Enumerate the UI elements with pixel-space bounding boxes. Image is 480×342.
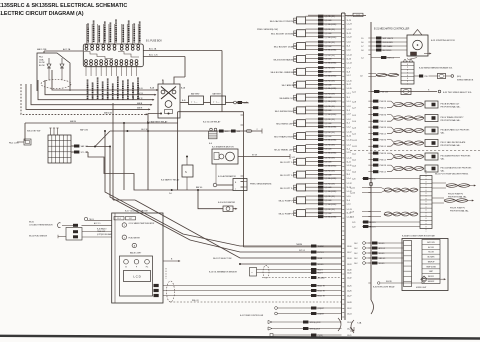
- svg-text:E-9 HOUR METER: E-9 HOUR METER: [218, 202, 236, 204]
- svg-text:BACK LIGHT: BACK LIGHT: [130, 251, 142, 254]
- svg-text:SE-5 SWING RIGHT: SE-5 SWING RIGHT: [275, 111, 295, 113]
- svg-text:SOL VALVE UNIT: SOL VALVE UNIT: [86, 83, 89, 99]
- svg-text:IQ5 BA (GND): IQ5 BA (GND): [325, 36, 337, 39]
- svg-text:E-2 BATTERY RELAY: E-2 BATTERY RELAY: [147, 121, 168, 124]
- svg-text:1-2-11: 1-2-11: [352, 146, 357, 148]
- svg-text:1-1-7: 1-1-7: [347, 67, 351, 69]
- svg-text:1-2-12: 1-2-12: [352, 140, 357, 142]
- svg-text:SRV B(+)47-R: SRV B(+)47-R: [310, 322, 322, 324]
- svg-text:1-1-9: 1-1-9: [347, 106, 351, 108]
- svg-text:IQ5 L4B: IQ5 L4B: [325, 59, 333, 61]
- svg-text:COOL WATER TEMP INDICATOR: COOL WATER TEMP INDICATOR: [129, 222, 156, 225]
- svg-text:1-1-5: 1-1-5: [347, 196, 351, 198]
- svg-text:1-2-1: 1-2-1: [352, 92, 356, 94]
- svg-text:ST 1.25: ST 1.25: [81, 152, 87, 154]
- svg-text:1-2-8: 1-2-8: [352, 102, 356, 104]
- svg-text:11-16: 11-16: [347, 58, 351, 60]
- svg-text:FB-1: FB-1: [39, 57, 43, 59]
- svg-text:1-1-15: 1-1-15: [347, 80, 352, 82]
- svg-text:TEMP UP: TEMP UP: [428, 261, 435, 263]
- svg-text:13-18: 13-18: [347, 258, 352, 260]
- svg-text:SRV B(-)47-R: SRV B(-)47-R: [310, 329, 321, 331]
- svg-text:IQ5 BA (GND): IQ5 BA (GND): [325, 74, 337, 77]
- svg-text:IQ5 L4B: IQ5 L4B: [325, 174, 333, 176]
- svg-text:VAL.: VAL.: [441, 169, 446, 172]
- svg-text:2: 2: [257, 129, 258, 131]
- svg-text:COOLANT THERM SENSOR: COOLANT THERM SENSOR: [29, 223, 53, 226]
- svg-text:PRES. SENSOR(LOW): PRES. SENSOR(LOW): [257, 29, 278, 31]
- svg-text:| · | —: | · | —: [192, 101, 199, 103]
- svg-text:1-1-6: 1-1-6: [347, 42, 351, 44]
- svg-text:13-17: 13-17: [347, 252, 352, 254]
- svg-text:14-32: 14-32: [347, 277, 352, 279]
- svg-text:BODL 7R: BODL 7R: [318, 286, 326, 288]
- svg-text:BACKUP LAMP: BACKUP LAMP: [107, 85, 110, 99]
- svg-text:IQ5 L4B: IQ5 L4B: [325, 213, 333, 215]
- svg-text:1-1-2: 1-1-2: [347, 127, 351, 129]
- svg-text:IQ5 BA (GND): IQ5 BA (GND): [325, 164, 337, 167]
- svg-text:SE-11 OPT 2-1: SE-11 OPT 2-1: [280, 188, 295, 190]
- svg-text:E-17 CLUSTER GAUGE: E-17 CLUSTER GAUGE: [125, 210, 148, 213]
- svg-text:1-1-1: 1-1-1: [347, 93, 351, 95]
- svg-text:CIGAR SOCKET: CIGAR SOCKET: [122, 84, 125, 99]
- svg-text:1-1-11: 1-1-11: [347, 165, 352, 167]
- svg-text:(B-5): (B-5): [457, 76, 461, 78]
- svg-text:IQ5 BA (GND): IQ5 BA (GND): [325, 177, 337, 180]
- svg-text:11-2: 11-2: [347, 123, 350, 125]
- svg-text:WIPER MOTOR: WIPER MOTOR: [110, 28, 112, 42]
- svg-text:MAI 30: MAI 30: [70, 120, 76, 123]
- svg-text:ACC(B)R: ACC(B)R: [318, 277, 326, 280]
- svg-text:RADIO BACKUP: RADIO BACKUP: [115, 27, 118, 42]
- svg-text:AIRCON COMP: AIRCON COMP: [128, 28, 131, 42]
- svg-text:1-1-14: 1-1-14: [347, 55, 352, 57]
- svg-text:FUT 0.5: FUT 0.5: [318, 252, 324, 254]
- svg-text:12-7: 12-7: [129, 218, 132, 220]
- svg-text:ADJ 0.5: ADJ 0.5: [370, 221, 376, 224]
- svg-text:1-1-10: 1-1-10: [347, 132, 352, 134]
- svg-text:SE-14 ACCEL POTENTIO: SE-14 ACCEL POTENTIO: [270, 20, 295, 23]
- svg-text:MAI 0.5B: MAI 0.5B: [104, 111, 113, 114]
- svg-text:IQ5 RD (5V): IQ5 RD (5V): [325, 55, 336, 57]
- svg-text:1-1-2: 1-1-2: [347, 119, 351, 121]
- svg-text:SE-10 TRAVEL LEFT: SE-10 TRAVEL LEFT: [274, 148, 295, 151]
- svg-text:E-40 RADIO: E-40 RADIO: [97, 227, 107, 230]
- svg-text:IQ5 BA (GND): IQ5 BA (GND): [325, 113, 337, 116]
- svg-text:IQ5 BA (GND): IQ5 BA (GND): [325, 216, 337, 219]
- svg-text:E-13 OIL SEPARATOR SENSOR: E-13 OIL SEPARATOR SENSOR: [209, 270, 238, 273]
- svg-text:SPARE FUSE B: SPARE FUSE B: [139, 28, 142, 42]
- svg-text:11-8: 11-8: [347, 71, 350, 73]
- svg-text:12-1: 12-1: [117, 218, 120, 220]
- svg-text:11-3: 11-3: [347, 46, 350, 48]
- svg-text:LAMP CONT ACC: LAMP CONT ACC: [91, 83, 94, 99]
- svg-text:MAI 1.25B: MAI 1.25B: [37, 48, 47, 51]
- svg-text:1-8: 1-8: [361, 50, 364, 52]
- svg-text:E-1 FUSE BOX: E-1 FUSE BOX: [146, 41, 162, 43]
- svg-text:14-26: 14-26: [347, 290, 352, 292]
- svg-text:PSS RD: PSS RD: [380, 101, 387, 103]
- svg-text:E-4 GLOW RELAY: E-4 GLOW RELAY: [203, 121, 221, 124]
- svg-text:IQ5 L4B: IQ5 L4B: [325, 46, 333, 48]
- svg-text:FUEL METER: FUEL METER: [129, 237, 141, 239]
- svg-text:1-1-13: 1-1-13: [347, 209, 352, 211]
- svg-text:AIR SUSP SEAT: AIR SUSP SEAT: [132, 84, 135, 99]
- svg-text:SE-8 ARM OUT: SE-8 ARM OUT: [279, 97, 294, 100]
- svg-text:BAT R: BAT R: [137, 97, 143, 100]
- svg-text:BLK SOLID: BLK SOLID: [383, 50, 393, 52]
- svg-text:CIGAR LIGHTER: CIGAR LIGHTER: [92, 27, 95, 42]
- svg-text:PSV-P2 PUMP P2: PSV-P2 PUMP P2: [448, 194, 463, 196]
- svg-text:PSS RD: PSS RD: [380, 115, 387, 117]
- svg-text:GEL B: GEL B: [137, 88, 143, 90]
- svg-text:PSV-P1 PUMP P1: PSV-P1 PUMP P1: [450, 208, 465, 210]
- svg-text:BAT 40: BAT 40: [196, 186, 202, 189]
- svg-text:PSS 0.5: PSS 0.5: [380, 172, 386, 174]
- svg-text:1-2-5: 1-2-5: [352, 115, 356, 117]
- svg-text:SE-31: SE-31: [29, 221, 34, 223]
- svg-text:IQ5 BA (GND): IQ5 BA (GND): [325, 87, 337, 90]
- svg-text:SE-9 TRAVEL RIGHT: SE-9 TRAVEL RIGHT: [274, 135, 295, 138]
- svg-text:PSS 0.5: PSS 0.5: [380, 146, 386, 148]
- svg-text:ROOM LAMP ACC: ROOM LAMP ACC: [98, 25, 101, 42]
- svg-text:ACC 1.5: ACC 1.5: [94, 222, 100, 225]
- svg-text:ACC 2A: ACC 2A: [149, 48, 157, 51]
- svg-text:SE-11 OPT 1-2: SE-11 OPT 1-2: [280, 175, 295, 177]
- svg-text:IQ5 L4B: IQ5 L4B: [325, 110, 333, 112]
- svg-text:E-6 SAFETY RELAY: E-6 SAFETY RELAY: [161, 179, 180, 182]
- svg-text:1-1-11: 1-1-11: [347, 157, 352, 159]
- svg-text:HORN SW BAT: HORN SW BAT: [96, 85, 99, 99]
- svg-text:11-5: 11-5: [347, 174, 350, 176]
- svg-text:SENSOR: SENSOR: [428, 281, 435, 283]
- svg-text:IQ5 L4B: IQ5 L4B: [325, 161, 333, 163]
- svg-text:(12)EXT: (12)EXT: [318, 308, 324, 310]
- svg-text:SE-4 BOOM LOWERING: SE-4 BOOM LOWERING: [271, 72, 295, 74]
- svg-text:1-1-3: 1-1-3: [347, 145, 351, 147]
- svg-text:E-35 TWO SPEED SELECT SOL.: E-35 TWO SPEED SELECT SOL.: [443, 92, 473, 94]
- svg-text:SLOW: SLOW: [39, 62, 45, 64]
- svg-text:PSS 0.5: PSS 0.5: [380, 108, 386, 110]
- svg-text:1-1-1: 1-1-1: [347, 101, 351, 103]
- svg-text:E-30 AIR CONDITIONER ROOM STAY: E-30 AIR CONDITIONER ROOM STAY: [402, 235, 436, 238]
- svg-text:B 40: B 40: [182, 100, 186, 102]
- svg-text:1-1-4: 1-1-4: [347, 170, 351, 172]
- svg-text:1-6-4: 1-6-4: [352, 172, 356, 174]
- svg-text:TEMP DOWN: TEMP DOWN: [426, 266, 436, 268]
- svg-text:1-2-4: 1-2-4: [352, 121, 356, 123]
- svg-text:(12)EXT: (12)EXT: [318, 314, 324, 316]
- svg-text:ACC SOCKET B: ACC SOCKET B: [87, 27, 90, 42]
- svg-text:IQ5 BA (GND): IQ5 BA (GND): [325, 190, 337, 193]
- svg-text:IQ5 RD (5V): IQ5 RD (5V): [325, 93, 336, 95]
- svg-text:11-11: 11-11: [347, 161, 351, 163]
- svg-text:PROPORTIONAL VAL.: PROPORTIONAL VAL.: [448, 195, 467, 198]
- svg-text:14-2: 14-2: [354, 253, 357, 255]
- svg-text:IQ5 BA (GND): IQ5 BA (GND): [325, 100, 337, 103]
- svg-text:11-17: 11-17: [347, 84, 351, 86]
- svg-text:THERM: THERM: [296, 244, 303, 246]
- svg-text:11-6: 11-6: [347, 200, 350, 202]
- svg-text:PSV-3 ARM PRIORITY PROPORT.: PSV-3 ARM PRIORITY PROPORT.: [441, 154, 472, 157]
- svg-text:SE-3 BOOM RAISING: SE-3 BOOM RAISING: [273, 58, 294, 61]
- svg-text:GLO 30: GLO 30: [141, 129, 148, 131]
- svg-text:SE-12 PUMP P2: SE-12 PUMP P2: [279, 214, 295, 216]
- svg-text:SIG 0.5: SIG 0.5: [318, 264, 324, 266]
- svg-text:SE-12 PUMP P1: SE-12 PUMP P1: [279, 201, 295, 203]
- svg-text:SE-11 OPT 1-1: SE-11 OPT 1-1: [280, 162, 295, 164]
- svg-text:1-6-3: 1-6-3: [352, 166, 356, 168]
- svg-text:~: ~: [251, 271, 253, 275]
- svg-text:11-10: 11-10: [347, 136, 351, 138]
- svg-text:IQ5 BA (GND): IQ5 BA (GND): [325, 49, 337, 52]
- svg-text:RST 0.5: RST 0.5: [388, 58, 394, 60]
- svg-text:REG 2s: REG 2s: [370, 179, 376, 181]
- svg-text:IQ5 L4B: IQ5 L4B: [325, 200, 333, 202]
- svg-text:1-4: 1-4: [361, 57, 364, 59]
- svg-text:PSV-B BY-PASS CUT: PSV-B BY-PASS CUT: [441, 102, 461, 105]
- svg-text:(OPT)ROOM LAMP: (OPT)ROOM LAMP: [97, 233, 113, 236]
- svg-text:11-23: 11-23: [347, 20, 351, 22]
- svg-text:1-21: 1-21: [352, 222, 355, 224]
- svg-text:14-28: 14-28: [347, 302, 352, 304]
- svg-text:Y-1A: Y-1A: [357, 322, 362, 325]
- svg-text:14-25: 14-25: [347, 285, 352, 287]
- svg-text:BLOW: BLOW: [39, 65, 45, 67]
- svg-text:SE-7 ARM IN: SE-7 ARM IN: [282, 84, 295, 87]
- svg-text:13-13: 13-13: [347, 313, 352, 315]
- svg-text:1-2-11: 1-2-11: [350, 188, 355, 190]
- svg-text:IQ5 L4B: IQ5 L4B: [325, 187, 333, 189]
- svg-text:MAI B: MAI B: [137, 102, 143, 105]
- svg-text:PSS: PSS: [424, 76, 427, 78]
- svg-text:13-19: 13-19: [347, 264, 352, 266]
- svg-text:1-1-15: 1-1-15: [347, 88, 352, 90]
- svg-text:IQ5 RD (5V): IQ5 RD (5V): [325, 80, 336, 82]
- svg-text:SE-6 SWING LEFT: SE-6 SWING LEFT: [276, 124, 295, 126]
- svg-text:IQ5 RD (5V): IQ5 RD (5V): [325, 42, 336, 44]
- svg-text:BUZ R: BUZ R: [318, 273, 324, 275]
- svg-text:1-8: 1-8: [360, 75, 363, 77]
- svg-text:1-6-1: 1-6-1: [352, 154, 356, 156]
- svg-text:1-1-4: 1-1-4: [347, 178, 351, 180]
- svg-text:1-1-23: 1-1-23: [347, 24, 352, 26]
- svg-text:DEC B: DEC B: [137, 93, 144, 95]
- svg-text:HORN RELAY B: HORN RELAY B: [104, 27, 107, 42]
- svg-text:SWING PARKING B: SWING PARKING B: [457, 79, 474, 82]
- svg-text:1.25: 1.25: [237, 131, 240, 133]
- svg-text:1-2-3: 1-2-3: [352, 128, 356, 130]
- svg-text:IQ5 L4B: IQ5 L4B: [325, 123, 333, 125]
- svg-text:IQ5 RD (5V): IQ5 RD (5V): [325, 196, 336, 198]
- svg-text:11-4: 11-4: [347, 148, 350, 150]
- svg-text:IQ5 RD (5V): IQ5 RD (5V): [325, 145, 336, 147]
- svg-text:11-9: 11-9: [347, 110, 350, 112]
- svg-text:IQ5 L4B: IQ5 L4B: [325, 84, 333, 86]
- svg-text:ACC 1.25: ACC 1.25: [149, 54, 159, 57]
- svg-text:METER UNIT B: METER UNIT B: [113, 85, 115, 99]
- svg-text:1-1-3: 1-1-3: [347, 152, 351, 154]
- svg-text:IQ5 BA (GND): IQ5 BA (GND): [325, 126, 337, 129]
- svg-text:PSV-1 ATTACH BOOST PROPORT.: PSV-1 ATTACH BOOST PROPORT.: [441, 166, 473, 169]
- svg-text:WHT LIGHTS: WHT LIGHTS: [383, 38, 394, 40]
- svg-text:IQ5 L4B: IQ5 L4B: [325, 20, 333, 22]
- svg-text:IQ5 BA (GND): IQ5 BA (GND): [325, 203, 337, 206]
- svg-text:L C D: L C D: [133, 275, 141, 279]
- svg-text:HI LOW: HI LOW: [428, 252, 434, 254]
- svg-text:1-1-23: 1-1-23: [347, 16, 352, 18]
- svg-text:TUNER AMP ACC: TUNER AMP ACC: [137, 83, 140, 99]
- svg-text:13-28: 13-28: [347, 328, 352, 330]
- svg-text:ROOM LAMP BAT: ROOM LAMP BAT: [117, 83, 120, 99]
- svg-text:IQ5 RD (5V): IQ5 RD (5V): [325, 106, 336, 108]
- svg-text:S: S: [185, 170, 187, 174]
- svg-text:FB-2 1.25R: FB-2 1.25R: [9, 143, 19, 145]
- svg-text:1-20: 1-20: [352, 179, 355, 181]
- svg-text:1-2-6: 1-2-6: [350, 217, 354, 219]
- svg-text:IQ5 RD (5V): IQ5 RD (5V): [325, 158, 336, 160]
- svg-text:RM(+)-R: RM(+)-R: [192, 300, 199, 302]
- svg-text:ELECTRIC CIRCUIT DIAGRAM (A): ELECTRIC CIRCUIT DIAGRAM (A): [0, 11, 84, 17]
- svg-text:PROPORTIONAL VAL.: PROPORTIONAL VAL.: [450, 209, 469, 212]
- svg-text:PSS RD: PSS RD: [380, 165, 387, 167]
- svg-text:IQ5 BA (GND): IQ5 BA (GND): [325, 23, 337, 26]
- svg-text:L: L: [235, 189, 236, 191]
- svg-text:SE-1 BUCKET DIGGING: SE-1 BUCKET DIGGING: [271, 34, 295, 36]
- svg-text:13-16: 13-16: [347, 246, 352, 248]
- svg-text:IQ5 RD (5V): IQ5 RD (5V): [325, 68, 336, 70]
- svg-text:IQ5 L4B: IQ5 L4B: [325, 33, 333, 35]
- svg-text:BATTERY: BATTERY: [191, 93, 200, 96]
- svg-text:PSV-4 TRAVEL PRIORITY: PSV-4 TRAVEL PRIORITY: [441, 116, 465, 119]
- svg-text:IQ5 BA (GND): IQ5 BA (GND): [325, 139, 337, 142]
- svg-text:1-1-14: 1-1-14: [347, 62, 352, 64]
- svg-text:1-1-5: 1-1-5: [347, 204, 351, 206]
- svg-text:PRES. SENSOR(HIGH): PRES. SENSOR(HIGH): [250, 184, 272, 186]
- svg-text:BATTERY: BATTERY: [213, 93, 222, 96]
- svg-text:1-1-12: 1-1-12: [347, 183, 352, 185]
- svg-text:RECIRC: RECIRC: [428, 276, 435, 278]
- svg-text:VENT: VENT: [429, 271, 433, 273]
- svg-text:1-1-9: 1-1-9: [347, 114, 351, 116]
- svg-text:14-2: 14-2: [354, 248, 357, 250]
- svg-text:IQ5 L4B: IQ5 L4B: [325, 149, 333, 151]
- svg-text:IQ5 RD (5V): IQ5 RD (5V): [325, 132, 336, 134]
- svg-text:SE-13 P SELECT SW: SE-13 P SELECT SW: [213, 258, 232, 260]
- svg-text:PSV-A BY-PASS CUT PROPORT.: PSV-A BY-PASS CUT PROPORT.: [441, 128, 471, 131]
- svg-text:BODL 7R: BODL 7R: [318, 296, 326, 298]
- svg-text:IQ5 RD (5V): IQ5 RD (5V): [325, 209, 336, 211]
- svg-text:1-6: 1-6: [361, 42, 364, 44]
- svg-text:IQ5 RD (5V): IQ5 RD (5V): [325, 29, 336, 31]
- svg-text:BUZ R: BUZ R: [318, 270, 324, 272]
- svg-text:PSS 0.5: PSS 0.5: [380, 160, 386, 162]
- svg-text:14-31: 14-31: [347, 272, 352, 274]
- svg-text:1-1-7: 1-1-7: [347, 75, 351, 77]
- svg-text:| · | —: | · | —: [214, 101, 221, 103]
- svg-text:IQ5 L4B: IQ5 L4B: [325, 72, 333, 74]
- svg-text:1-6-2: 1-6-2: [352, 160, 356, 162]
- svg-text:1-7: 1-7: [361, 46, 364, 48]
- svg-text:1-2-9: 1-2-9: [350, 212, 354, 214]
- svg-text:1-1-10: 1-1-10: [347, 139, 352, 141]
- svg-text:150A: 150A: [39, 58, 44, 61]
- svg-text:SIG 0.5: SIG 0.5: [379, 253, 385, 255]
- svg-text:1-1-22: 1-1-22: [347, 29, 352, 31]
- svg-text:PSS 0.5: PSS 0.5: [380, 134, 386, 136]
- svg-text:SIG 0.5: SIG 0.5: [379, 263, 385, 265]
- svg-text:14-2: 14-2: [354, 263, 357, 265]
- svg-text:THERM: THERM: [318, 246, 325, 248]
- svg-text:IQ5 RD (5V): IQ5 RD (5V): [325, 16, 336, 18]
- svg-text:SIG 0.5: SIG 0.5: [379, 243, 385, 245]
- svg-text:SE-10 FUEL SENSOR: SE-10 FUEL SENSOR: [29, 235, 48, 237]
- svg-text:14-2: 14-2: [354, 258, 357, 260]
- svg-text:AUX SOCKET B: AUX SOCKET B: [127, 84, 130, 99]
- svg-text:13-12: 13-12: [347, 308, 352, 310]
- svg-text:PSS 0.5: PSS 0.5: [380, 121, 386, 123]
- svg-text:1-2-2: 1-2-2: [352, 134, 356, 136]
- svg-text:2-6: 2-6: [169, 193, 172, 195]
- svg-text:1-2-10: 1-2-10: [350, 193, 355, 195]
- svg-text:RED BLINKS: RED BLINKS: [383, 42, 394, 44]
- svg-text:ST 5R: ST 5R: [252, 154, 258, 156]
- svg-text:PSS RD: PSS RD: [380, 127, 387, 129]
- svg-text:WASHER MOTOR: WASHER MOTOR: [101, 83, 104, 99]
- svg-text:IQ5 RD (5V): IQ5 RD (5V): [325, 183, 336, 185]
- svg-text:FUT 0.5: FUT 0.5: [299, 250, 305, 252]
- svg-text:HEATER UNIT A: HEATER UNIT A: [122, 27, 125, 42]
- svg-text:SAF 0.85: SAF 0.85: [80, 129, 88, 132]
- svg-text:IQ5 L4B: IQ5 L4B: [325, 136, 333, 138]
- svg-text:E-36 HORN LIGHT RELAY: E-36 HORN LIGHT RELAY: [373, 286, 395, 289]
- svg-text:E-31 STEPPING MOTOR: E-31 STEPPING MOTOR: [431, 40, 455, 42]
- svg-text:PROPORTIONAL VAL.: PROPORTIONAL VAL.: [441, 119, 461, 122]
- svg-text:VAL.: VAL.: [441, 157, 446, 160]
- svg-text:1-1-6: 1-1-6: [347, 49, 351, 51]
- svg-text:E-21 MECHATRO CONTROLLER: E-21 MECHATRO CONTROLLER: [374, 28, 410, 31]
- svg-text:E-4: E-4: [209, 143, 212, 145]
- svg-text:PROPORTIONAL VAL.: PROPORTIONAL VAL.: [441, 144, 461, 147]
- svg-text:GRN FLASH: GRN FLASH: [383, 45, 393, 48]
- svg-text:MAI R: MAI R: [137, 107, 143, 110]
- svg-text:E-34 SWING PARKING RELEASE SOL: E-34 SWING PARKING RELEASE SOL: [419, 67, 452, 70]
- svg-text:BAT 40: BAT 40: [243, 102, 249, 105]
- svg-text:ACC 2A: ACC 2A: [63, 48, 71, 51]
- svg-text:VAL.: VAL.: [441, 131, 446, 134]
- svg-text:GND 0.5: GND 0.5: [379, 258, 386, 260]
- svg-text:ADJ 0.5: ADJ 0.5: [370, 226, 376, 229]
- svg-text:14-2: 14-2: [354, 243, 357, 245]
- svg-text:1-22: 1-22: [352, 227, 355, 229]
- svg-text:E-41 TUNER CONTROLLER: E-41 TUNER CONTROLLER: [240, 315, 264, 317]
- svg-text:1-5: 1-5: [361, 38, 364, 40]
- svg-text:BODL 7R: BODL 7R: [318, 291, 326, 293]
- svg-text:E-5 STARTER MOTOR: E-5 STARTER MOTOR: [212, 146, 234, 149]
- svg-text:1-1-22: 1-1-22: [347, 37, 352, 39]
- svg-text:SIG RD: SIG RD: [386, 281, 393, 283]
- svg-text:IQ5 RD (5V): IQ5 RD (5V): [325, 119, 336, 121]
- svg-text:PSS RD: PSS RD: [380, 153, 387, 155]
- svg-text:1-2-7: 1-2-7: [352, 108, 356, 110]
- svg-text:IQ5 BA (GND): IQ5 BA (GND): [325, 151, 337, 154]
- svg-text:11-1: 11-1: [347, 97, 350, 99]
- svg-text:CONT UNIT ACC: CONT UNIT ACC: [133, 27, 136, 42]
- svg-text:K135SRLC & SK135SRL ELECTRICAL: K135SRLC & SK135SRL ELECTRICAL SCHEMATIC: [0, 3, 127, 9]
- svg-text:IQ5 RD (5V): IQ5 RD (5V): [325, 170, 336, 172]
- svg-text:IQ5 L4B: IQ5 L4B: [325, 97, 333, 99]
- svg-text:14-27: 14-27: [347, 295, 352, 297]
